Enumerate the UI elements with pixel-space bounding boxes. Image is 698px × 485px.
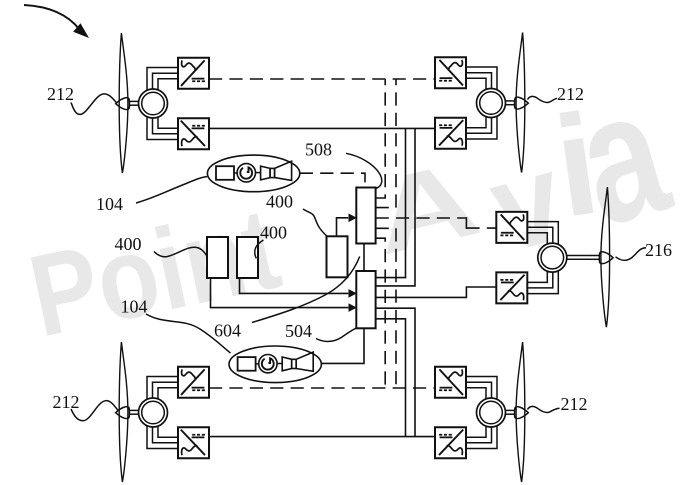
svg-text:212: 212 — [53, 392, 80, 412]
svg-text:604: 604 — [214, 321, 241, 341]
svg-text:104: 104 — [96, 194, 123, 214]
svg-text:400: 400 — [115, 234, 142, 254]
svg-text:400: 400 — [260, 223, 287, 243]
svg-text:216: 216 — [645, 240, 672, 260]
svg-text:212: 212 — [47, 84, 74, 104]
svg-text:504: 504 — [285, 321, 312, 341]
svg-text:212: 212 — [561, 394, 588, 414]
svg-text:400: 400 — [266, 192, 293, 212]
svg-text:508: 508 — [305, 140, 332, 160]
svg-text:104: 104 — [121, 297, 148, 317]
svg-text:212: 212 — [557, 84, 584, 104]
